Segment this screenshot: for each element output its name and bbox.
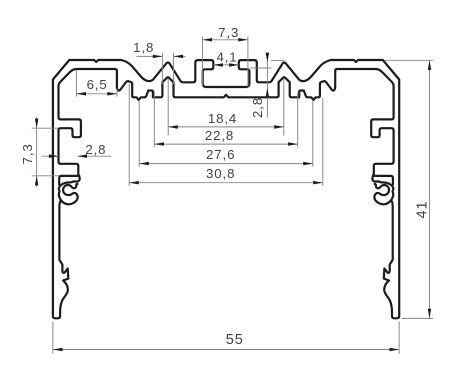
svg-text:22,8: 22,8	[205, 128, 234, 143]
svg-text:18,4: 18,4	[208, 111, 237, 126]
svg-text:1,8: 1,8	[133, 40, 154, 55]
svg-text:27,6: 27,6	[206, 147, 235, 162]
svg-text:7,3: 7,3	[20, 143, 35, 164]
dimension 22,8	[154, 91, 297, 147]
jaw underside slot, left wall	[59, 176, 78, 185]
dimension 30,8	[129, 84, 323, 186]
dimension 55 (overall width)	[53, 322, 399, 354]
dimension 7,3 (channel width, top)	[203, 25, 248, 87]
svg-text:4,1: 4,1	[216, 50, 237, 65]
jaw underside slot, right wall (mirrored)	[374, 176, 393, 185]
dimension 41 (overall height)	[385, 60, 434, 318]
dimension 18,4 (screw slot spacing)	[168, 79, 284, 136]
dimension 2,8 (channel depth, right)	[250, 53, 284, 118]
dimension 4,1 (lip opening)	[213, 50, 238, 67]
svg-text:6,5: 6,5	[87, 77, 108, 92]
svg-text:55: 55	[226, 332, 244, 348]
dimension 7,3 (slot height, left)	[20, 117, 59, 187]
dimension 6,5 (corner pocket width)	[76, 70, 117, 97]
svg-text:2,8: 2,8	[85, 142, 106, 157]
svg-text:30,8: 30,8	[206, 166, 235, 181]
profile outline: right half (mirrored)	[226, 60, 399, 318]
svg-text:2,8: 2,8	[250, 97, 265, 118]
profile outline: left half of extrusion cross-section	[53, 60, 226, 318]
dimension 2,8 (slot depth, left)	[42, 142, 111, 158]
dimension 27,6	[139, 100, 313, 167]
dimension 1,8 (screw slot width)	[133, 40, 185, 84]
svg-text:41: 41	[415, 200, 431, 218]
svg-text:7,3: 7,3	[218, 25, 239, 40]
